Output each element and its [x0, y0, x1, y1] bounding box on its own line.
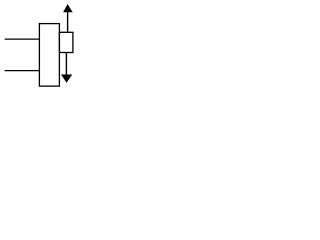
wire down-arrow stem [65, 53, 67, 76]
wire up-arrow stem [67, 12, 69, 33]
actuator block [59, 32, 73, 52]
up arrowhead [63, 4, 73, 12]
wire upper-left lead [5, 38, 40, 40]
device body box [39, 24, 59, 87]
down arrowhead [61, 75, 72, 83]
wire lower-left lead [5, 70, 40, 72]
